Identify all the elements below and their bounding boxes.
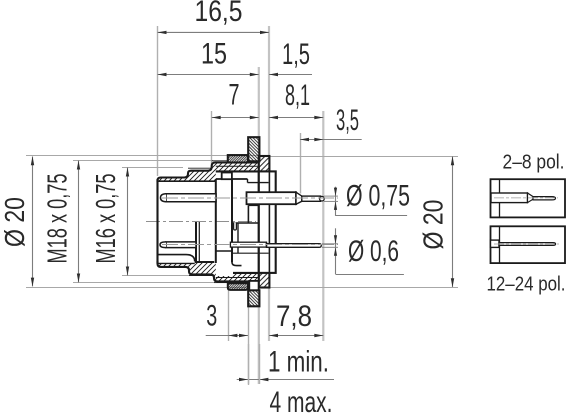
dimension 7 [212, 79, 259, 120]
mounting nut bottom [228, 281, 248, 290]
label diameter 0,6 [322, 228, 404, 274]
centerline main axis [146, 221, 256, 223]
thread crest M18 top [212, 160, 228, 162]
key detail center [234, 223, 237, 231]
cavity floor bottom [158, 255, 195, 262]
svg-text:M16 x 0,75: M16 x 0,75 [90, 174, 121, 264]
dimension 7,8 [269, 300, 323, 337]
insert block [216, 179, 269, 266]
svg-text:8,1: 8,1 [285, 79, 310, 112]
svg-text:3: 3 [206, 300, 217, 333]
pin lower (12-24 pol, 0.6) [160, 242, 338, 248]
dimension diameter 20 right [269, 156, 458, 287]
svg-text:15: 15 [201, 38, 227, 71]
thread crest M16 top [188, 167, 212, 169]
front shell body bottom [158, 261, 259, 281]
svg-text:7,8: 7,8 [276, 300, 312, 333]
dimension M16 x 0,75 [90, 168, 190, 276]
mounting nut top [228, 155, 248, 162]
extension line nut left [228, 289, 230, 341]
front shell body top [158, 163, 259, 183]
label diameter 0,75 [324, 180, 410, 216]
pin upper (2-8 pol, 0.75) [161, 192, 339, 204]
dimension 15 [158, 38, 259, 77]
icon box 12-24 pol [491, 226, 566, 263]
dimension 3,5 [300, 104, 362, 141]
rear insert holder barrel [259, 171, 276, 273]
svg-text:Ø 0,75: Ø 0,75 [346, 180, 410, 213]
dimension 3 [206, 300, 248, 338]
extension line flange front [258, 67, 260, 384]
dimension 1 min panel thickness [237, 344, 334, 413]
icon box 2-8 pol [491, 179, 566, 217]
svg-text:Ø 20: Ø 20 [0, 197, 30, 247]
thread crest M18 bottom [214, 282, 228, 284]
extension line flange rear [268, 26, 270, 341]
svg-text:M18 x 0,75: M18 x 0,75 [42, 174, 73, 264]
svg-text:3,5: 3,5 [336, 104, 359, 137]
svg-text:1 min.: 1 min. [268, 346, 329, 379]
extension line taper start [300, 133, 302, 194]
label 2-8 pol [503, 151, 565, 174]
panel bottom [248, 281, 259, 306]
svg-text:7: 7 [229, 79, 240, 112]
dimension 8,1 [269, 79, 323, 119]
svg-text:Ø 20: Ø 20 [418, 200, 449, 250]
panel top [248, 137, 259, 161]
label 12-24 pol [487, 273, 566, 296]
thread crest M16 bottom [189, 275, 214, 277]
svg-text:2–8 pol.: 2–8 pol. [503, 151, 565, 174]
flange [259, 156, 270, 288]
extension line thread end [211, 111, 213, 169]
insert face lower variant [196, 222, 199, 261]
svg-text:12–24 pol.: 12–24 pol. [487, 273, 566, 296]
dimension 1,5 [269, 38, 312, 76]
dimension M18 x 0,75 [42, 161, 216, 283]
extension line pin tip [322, 111, 324, 341]
svg-text:Ø 0,6: Ø 0,6 [348, 235, 399, 268]
extension line panel front [248, 307, 250, 386]
extension line front face [157, 26, 159, 176]
dimension 16,5 [158, 0, 270, 34]
svg-text:1,5: 1,5 [282, 38, 310, 71]
svg-text:4 max.: 4 max. [270, 386, 333, 413]
key bump [222, 173, 232, 180]
svg-text:16,5: 16,5 [195, 0, 243, 28]
dimension diameter 20 left [0, 156, 259, 288]
front face [156, 179, 158, 264]
